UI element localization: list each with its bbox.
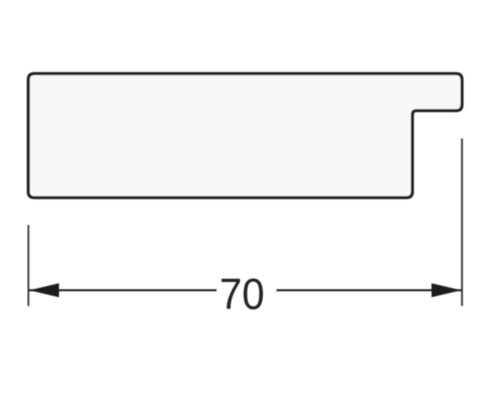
- right extension line: [461, 139, 463, 307]
- left arrowhead: [29, 283, 59, 297]
- svg-text:70: 70: [220, 270, 265, 319]
- right arrowhead: [432, 283, 462, 297]
- frame profile outline: [28, 74, 462, 198]
- dimension line left segment: [29, 289, 217, 291]
- dimension line right segment: [277, 289, 462, 291]
- left extension line: [27, 225, 29, 306]
